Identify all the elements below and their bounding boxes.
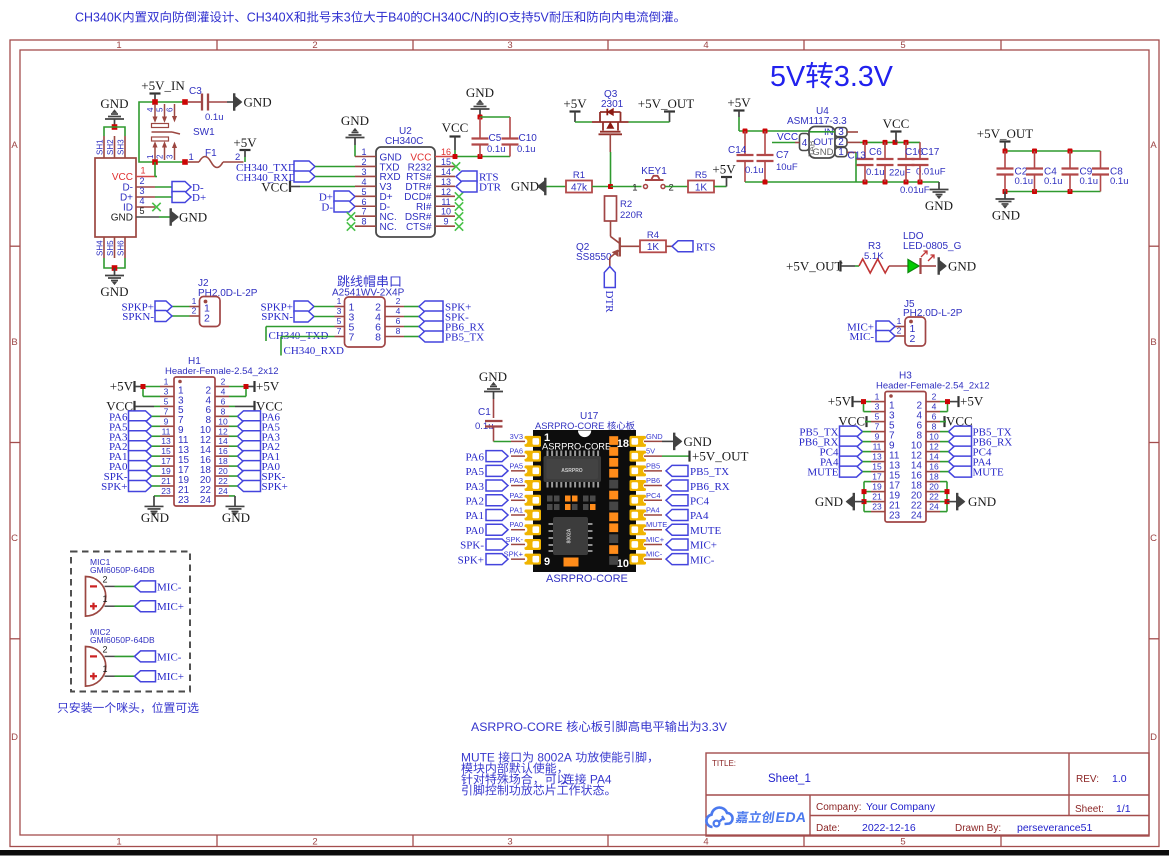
svg-text:MIC-: MIC- bbox=[157, 651, 182, 663]
svg-text:SPK-: SPK- bbox=[460, 540, 484, 552]
svg-text:DTR: DTR bbox=[479, 182, 502, 194]
svg-text:GND: GND bbox=[479, 369, 507, 384]
svg-text:PC4: PC4 bbox=[646, 491, 661, 500]
H3 pin 24 bbox=[911, 502, 940, 522]
svg-text:MUTE: MUTE bbox=[973, 467, 1004, 479]
svg-text:15: 15 bbox=[161, 446, 171, 456]
svg-text:C3: C3 bbox=[189, 86, 202, 97]
H1 pin 18 bbox=[200, 456, 229, 476]
capacitor C2 0.1u bbox=[997, 151, 1034, 192]
H3 pin 12 bbox=[911, 442, 940, 462]
module U17 passives graphic bbox=[547, 496, 596, 511]
net flag PB5_TX bbox=[666, 465, 729, 478]
junction bbox=[918, 180, 923, 185]
svg-text:10uF: 10uF bbox=[776, 162, 798, 173]
net flag MUTE bbox=[666, 524, 721, 537]
net flag PC4 left bbox=[820, 446, 871, 459]
svg-text:1: 1 bbox=[897, 316, 902, 326]
svg-text:3V3: 3V3 bbox=[510, 432, 523, 441]
wire bbox=[155, 186, 172, 188]
wire bbox=[855, 265, 859, 267]
wire bbox=[115, 655, 135, 657]
U4 pin1 GND stub and wire bbox=[745, 152, 856, 182]
svg-text:13: 13 bbox=[161, 436, 171, 446]
svg-text:2: 2 bbox=[910, 333, 916, 345]
net flag PB6_RX bbox=[666, 480, 730, 493]
wire bbox=[889, 265, 908, 267]
microphone MIC2 GMI6050P-64DB bbox=[86, 627, 156, 686]
H3 pin 2 bbox=[916, 392, 940, 412]
wire bbox=[864, 482, 871, 512]
svg-text:PC4: PC4 bbox=[690, 495, 709, 507]
H3 pin 11 bbox=[871, 442, 900, 462]
resistor R1 47k bbox=[566, 170, 592, 193]
junction bbox=[112, 124, 118, 130]
svg-text:+5V: +5V bbox=[828, 394, 852, 409]
bottom black bar bbox=[0, 850, 1169, 856]
capacitor C14 0.1u bbox=[728, 131, 764, 182]
net flag PB6_RX right bbox=[940, 436, 1012, 449]
note MUTE description bbox=[461, 751, 651, 796]
svg-text:5: 5 bbox=[337, 316, 342, 326]
svg-text:PB5_TX: PB5_TX bbox=[690, 466, 729, 478]
svg-text:1K: 1K bbox=[695, 182, 708, 193]
H1 pin 4 bbox=[205, 386, 229, 406]
svg-text:12: 12 bbox=[441, 187, 451, 197]
connector USB1 shield pins SH4-SH6 bbox=[96, 237, 126, 258]
H1 pin 16 bbox=[200, 446, 229, 466]
power flag +5V_OUT at U17 5V pin bbox=[662, 449, 748, 464]
ground GND below H1 pin24 bbox=[222, 499, 250, 525]
svg-text:1: 1 bbox=[116, 40, 121, 51]
ground GND below H1 pin23 bbox=[141, 499, 169, 525]
junction bbox=[945, 489, 950, 494]
ground GND bbox=[100, 268, 128, 299]
svg-text:10: 10 bbox=[218, 416, 228, 426]
wire bbox=[229, 387, 246, 397]
net flag D- bbox=[172, 182, 204, 195]
svg-text:CH340C/N: CH340C/N bbox=[423, 11, 483, 25]
svg-text:6: 6 bbox=[396, 316, 401, 326]
svg-text:R2: R2 bbox=[620, 199, 632, 210]
net flag PB5_TX bbox=[419, 331, 484, 344]
resistor R5 1K bbox=[688, 170, 714, 193]
svg-text:IO: IO bbox=[496, 11, 509, 25]
junction bbox=[152, 159, 158, 165]
net flag MIC- bbox=[850, 331, 895, 344]
svg-text:2: 2 bbox=[396, 296, 401, 306]
svg-text:15: 15 bbox=[441, 157, 451, 167]
net flag SPKN- bbox=[261, 311, 314, 323]
svg-text:以: 以 bbox=[557, 773, 569, 787]
svg-text:4: 4 bbox=[703, 837, 708, 848]
svg-text:9: 9 bbox=[164, 416, 169, 426]
svg-text:C10: C10 bbox=[519, 133, 538, 144]
ground GND flag bbox=[938, 257, 977, 275]
svg-text:PA3: PA3 bbox=[465, 481, 484, 493]
wire bbox=[315, 176, 355, 178]
svg-text:13: 13 bbox=[872, 452, 882, 462]
svg-text:17: 17 bbox=[872, 472, 882, 482]
net flag MUTE right bbox=[940, 466, 1004, 479]
net flag D- to U2 pin6 bbox=[321, 201, 355, 214]
svg-text:7: 7 bbox=[164, 406, 169, 416]
capacitor C1 0.1u bbox=[475, 399, 503, 442]
svg-text:Company:: Company: bbox=[816, 802, 862, 813]
svg-text:1: 1 bbox=[192, 296, 197, 306]
U17 left pin PA1 bbox=[509, 506, 525, 516]
ground GND flag bbox=[170, 208, 208, 226]
svg-text:5V: 5V bbox=[646, 447, 655, 456]
svg-text:SS8550: SS8550 bbox=[576, 252, 612, 263]
junction bbox=[152, 99, 158, 105]
svg-text:SPKN-: SPKN- bbox=[261, 311, 293, 323]
svg-text:VCC: VCC bbox=[442, 120, 469, 135]
wire bbox=[404, 306, 419, 308]
net flag DTR vertical bbox=[603, 267, 616, 314]
svg-text:10: 10 bbox=[617, 558, 629, 570]
svg-text:24: 24 bbox=[218, 486, 228, 496]
svg-text:MIC-: MIC- bbox=[850, 331, 875, 343]
JP pin 2 bbox=[375, 296, 404, 314]
svg-text:0.1u: 0.1u bbox=[1015, 176, 1034, 187]
svg-text:C: C bbox=[11, 533, 18, 544]
svg-text:SH3: SH3 bbox=[117, 139, 126, 155]
svg-text:C14: C14 bbox=[728, 145, 747, 156]
svg-text:5V: 5V bbox=[534, 11, 550, 25]
svg-text:DTR: DTR bbox=[603, 291, 615, 314]
svg-text:Drawn By:: Drawn By: bbox=[955, 823, 1001, 834]
svg-text:3: 3 bbox=[164, 386, 169, 396]
svg-text:7: 7 bbox=[875, 422, 880, 432]
ground GND above U2 pin1 bbox=[341, 113, 369, 145]
U2 pin 11 RI# bbox=[416, 197, 455, 213]
svg-text:2: 2 bbox=[156, 154, 165, 159]
wire bbox=[143, 387, 160, 397]
svg-text:10: 10 bbox=[929, 432, 939, 442]
net flag MIC- bbox=[135, 581, 182, 594]
power flag +5V right bbox=[948, 394, 984, 409]
svg-text:C6: C6 bbox=[869, 147, 882, 158]
H1 pin 24 bbox=[200, 486, 229, 506]
net flag PB6_RX left bbox=[799, 436, 871, 449]
svg-text:3: 3 bbox=[337, 306, 342, 316]
U17 right pin MIC- bbox=[644, 550, 663, 560]
U2 pin 1 GND bbox=[355, 147, 402, 163]
svg-text:VCC: VCC bbox=[261, 180, 288, 195]
svg-text:REV:: REV: bbox=[1076, 774, 1099, 785]
U4 pin3 IN stub bbox=[847, 131, 858, 133]
power flag VCC left bbox=[106, 398, 160, 413]
net flag PA4 right bbox=[940, 456, 992, 469]
connector USB1 shield pins SH1-SH3 bbox=[96, 136, 126, 158]
U17 right pin MIC+ bbox=[644, 535, 665, 545]
wire bbox=[404, 326, 419, 328]
net flag PA1 right bbox=[229, 451, 280, 464]
svg-text:+5V_OUT: +5V_OUT bbox=[692, 449, 748, 464]
svg-text:+5V_OUT: +5V_OUT bbox=[638, 96, 694, 111]
U2 pin 10 DSR# bbox=[405, 207, 455, 223]
wire bbox=[610, 152, 612, 187]
svg-text:PA2: PA2 bbox=[509, 491, 523, 500]
svg-text:47k: 47k bbox=[571, 182, 588, 193]
svg-text:PA1: PA1 bbox=[509, 506, 523, 515]
wire SW1 loop bbox=[139, 102, 185, 162]
svg-text:MIC-: MIC- bbox=[646, 550, 663, 559]
svg-text:CH340K: CH340K bbox=[75, 11, 123, 25]
svg-text:23: 23 bbox=[161, 486, 171, 496]
junction bbox=[862, 489, 867, 494]
svg-text:5: 5 bbox=[156, 107, 165, 112]
svg-text:PB5_TX: PB5_TX bbox=[445, 332, 484, 344]
svg-text:MUTE: MUTE bbox=[461, 751, 498, 765]
H1 pin 15 bbox=[160, 446, 190, 466]
svg-text:2: 2 bbox=[140, 176, 145, 186]
net flag MUTE left bbox=[807, 466, 871, 479]
net flag PA6 bbox=[465, 451, 508, 464]
svg-text:2: 2 bbox=[897, 326, 902, 336]
resistor R2 220R bbox=[605, 196, 643, 236]
svg-text:22: 22 bbox=[218, 476, 228, 486]
junction bbox=[763, 129, 768, 134]
net flag PA6 right bbox=[229, 411, 281, 424]
no-connect X U2 pin8 bbox=[347, 222, 355, 230]
U17 left pin PA6 bbox=[509, 447, 525, 457]
no-connect X U2 pin11 bbox=[455, 202, 463, 210]
power flag VCC right bbox=[229, 398, 283, 413]
ground GND flag left of R1 bbox=[511, 178, 547, 196]
U17 left pin PA3 bbox=[509, 476, 525, 486]
net flag MIC+ bbox=[135, 601, 184, 614]
capacitor C3 bbox=[188, 86, 227, 123]
wire bbox=[404, 336, 419, 338]
svg-text:MIC+: MIC+ bbox=[690, 540, 717, 552]
pin 1 VCC bbox=[112, 166, 155, 184]
svg-text:R4: R4 bbox=[647, 230, 659, 241]
net flag MIC+ bbox=[847, 321, 895, 334]
U17 right pin GND bbox=[644, 432, 663, 442]
power flag +5V bbox=[727, 95, 751, 117]
net flag MIC- bbox=[666, 554, 715, 567]
svg-text:1: 1 bbox=[116, 837, 121, 848]
U17 left pin 3V3 bbox=[510, 432, 525, 442]
H3 pin 23 bbox=[871, 502, 901, 522]
svg-text:12: 12 bbox=[218, 426, 228, 436]
H3 pin 9 bbox=[871, 432, 895, 452]
svg-text:VCC: VCC bbox=[883, 116, 910, 131]
svg-text:+5V: +5V bbox=[960, 394, 984, 409]
H3 pin 10 bbox=[911, 432, 940, 452]
svg-text:SH1: SH1 bbox=[96, 139, 105, 155]
svg-text:PB5: PB5 bbox=[646, 461, 660, 470]
junction bbox=[743, 129, 748, 134]
svg-text:1: 1 bbox=[632, 183, 637, 194]
U2 pin 5 D+ bbox=[355, 187, 393, 203]
svg-text:PA0: PA0 bbox=[509, 520, 523, 529]
H1 pin 13 bbox=[160, 436, 190, 456]
H1 pin 20 bbox=[200, 466, 229, 486]
svg-text:9: 9 bbox=[875, 432, 880, 442]
svg-text:14: 14 bbox=[218, 436, 228, 446]
H1 pin 14 bbox=[200, 436, 229, 456]
svg-text:8: 8 bbox=[221, 406, 226, 416]
svg-text:VCC: VCC bbox=[777, 132, 798, 143]
junction bbox=[1003, 149, 1008, 154]
wire bbox=[864, 402, 872, 412]
junction bbox=[904, 140, 909, 145]
svg-text:1: 1 bbox=[361, 147, 366, 157]
wire VCC pin1 to SW1 bbox=[155, 176, 157, 178]
pin 5 GND bbox=[111, 206, 159, 224]
wire bbox=[666, 245, 672, 247]
junction bbox=[182, 99, 188, 105]
MIC1 pin 2 bbox=[102, 574, 114, 586]
wire bbox=[575, 121, 592, 123]
svg-text:1: 1 bbox=[102, 594, 107, 604]
svg-text:PA5: PA5 bbox=[509, 461, 523, 470]
power flag +5V bbox=[233, 135, 257, 162]
junction bbox=[478, 115, 483, 120]
U17 right pin MUTE bbox=[644, 520, 667, 530]
svg-text:21: 21 bbox=[872, 492, 882, 502]
resistor R3 5.1K zigzag bbox=[859, 241, 889, 273]
net flag PA3 right bbox=[229, 431, 281, 444]
wire bbox=[547, 186, 567, 188]
svg-text:PA2: PA2 bbox=[465, 495, 484, 507]
junction bbox=[863, 140, 868, 145]
svg-text:8: 8 bbox=[396, 326, 401, 336]
pin 3 D+ bbox=[120, 186, 155, 204]
svg-text:15: 15 bbox=[872, 462, 882, 472]
wire bbox=[940, 482, 947, 512]
U4 pin2 OUT stub bbox=[847, 141, 860, 143]
capacitor C9 0.1u bbox=[1062, 151, 1099, 192]
svg-text:24: 24 bbox=[929, 502, 939, 512]
net flag PB5_TX left bbox=[799, 426, 871, 439]
svg-text:+5V_IN: +5V_IN bbox=[141, 78, 185, 93]
svg-text:20: 20 bbox=[218, 466, 228, 476]
pin 2 D- bbox=[122, 176, 155, 194]
svg-text:1: 1 bbox=[141, 166, 146, 176]
ground GND above C1 bbox=[479, 369, 507, 399]
svg-text:SPK+: SPK+ bbox=[262, 481, 288, 493]
svg-text:ASM1117-3.3: ASM1117-3.3 bbox=[787, 116, 847, 127]
svg-text:Header-Female-2.54_2x12: Header-Female-2.54_2x12 bbox=[165, 366, 279, 377]
svg-text:R5: R5 bbox=[695, 170, 707, 181]
junction bbox=[141, 384, 146, 389]
capacitor C13 0.1u bbox=[848, 142, 885, 182]
module U17 8002A chip graphic bbox=[549, 517, 593, 555]
svg-text:4: 4 bbox=[140, 196, 145, 206]
svg-text:5: 5 bbox=[900, 40, 905, 51]
svg-text:C5: C5 bbox=[489, 133, 502, 144]
svg-text:18: 18 bbox=[218, 456, 228, 466]
capacitor C16 0.01uF bbox=[898, 142, 946, 182]
svg-text:0.1u: 0.1u bbox=[1110, 176, 1129, 187]
svg-text:Sheet_1: Sheet_1 bbox=[768, 773, 811, 785]
wire bbox=[665, 186, 688, 188]
svg-text:2: 2 bbox=[102, 574, 107, 584]
svg-text:B: B bbox=[1150, 337, 1156, 348]
net flag PA0 right bbox=[229, 461, 281, 474]
H3 pin 5 bbox=[871, 412, 895, 432]
H1 pin 23 bbox=[160, 486, 190, 506]
svg-text:8: 8 bbox=[375, 332, 381, 344]
U2 pin 8 NC. bbox=[355, 217, 397, 233]
wire bbox=[315, 166, 355, 168]
wire bbox=[104, 127, 125, 136]
svg-text:RTS: RTS bbox=[696, 241, 716, 253]
net flag PA2 left bbox=[109, 441, 160, 454]
svg-text:23: 23 bbox=[178, 495, 190, 506]
wire bbox=[480, 116, 510, 118]
junction bbox=[893, 140, 898, 145]
svg-text:9: 9 bbox=[443, 217, 448, 227]
net label VCC wire to U4 pin4 bbox=[772, 132, 800, 143]
svg-text:1: 1 bbox=[164, 377, 169, 387]
H1 pin 9 bbox=[160, 416, 184, 436]
junction bbox=[112, 265, 118, 271]
ground GND flag left bbox=[815, 493, 864, 511]
power flag +5V_OUT bbox=[977, 126, 1033, 151]
no-connect X U2 pin7 bbox=[347, 212, 355, 220]
net flag PC4 bbox=[666, 495, 709, 508]
svg-text:5: 5 bbox=[361, 187, 366, 197]
H3 pin 13 bbox=[871, 452, 901, 472]
net flag SPK+ right bbox=[229, 481, 288, 494]
no-connect X U2 pin10 bbox=[455, 212, 463, 220]
module U17 right pads bbox=[630, 436, 649, 565]
net flag PA5 right bbox=[229, 421, 281, 434]
svg-text:4: 4 bbox=[146, 107, 155, 112]
svg-text:GND: GND bbox=[179, 210, 207, 225]
svg-text:5: 5 bbox=[900, 837, 905, 848]
connector J2 PH2.0D-L-2P bbox=[190, 278, 258, 327]
svg-text:220R: 220R bbox=[620, 210, 643, 221]
module U17 left pads bbox=[522, 436, 541, 565]
svg-text:22uF: 22uF bbox=[889, 168, 911, 179]
U2 pin 15 R232 bbox=[408, 157, 455, 173]
net flag SPKP+ bbox=[260, 301, 314, 314]
svg-text:GND: GND bbox=[646, 432, 663, 441]
JP pin 5 bbox=[335, 316, 355, 334]
svg-text:GND: GND bbox=[111, 213, 133, 224]
net flag SPK+ bbox=[458, 554, 508, 567]
power flag +5V_IN bbox=[141, 78, 185, 102]
power flag +5V_OUT bbox=[638, 96, 694, 122]
svg-text:5: 5 bbox=[875, 412, 880, 422]
power flag VCC to U2 pin4 bbox=[261, 180, 300, 195]
svg-text:GND: GND bbox=[925, 198, 953, 213]
svg-text:Header-Female-2.54_2x12: Header-Female-2.54_2x12 bbox=[876, 381, 990, 392]
net flag SPKP+ bbox=[121, 301, 172, 314]
svg-text:TITLE:: TITLE: bbox=[712, 759, 736, 768]
svg-text:1: 1 bbox=[102, 664, 107, 674]
svg-text:2: 2 bbox=[312, 837, 317, 848]
H3 pin 14 bbox=[911, 452, 940, 472]
H3 pin 7 bbox=[871, 422, 895, 442]
svg-text:MIC+: MIC+ bbox=[157, 601, 184, 613]
capacitor C6 22uF bbox=[869, 142, 911, 182]
svg-text:4: 4 bbox=[361, 177, 366, 187]
fuse F1 bbox=[188, 148, 244, 168]
junction bbox=[861, 399, 866, 404]
svg-text:PA3: PA3 bbox=[509, 476, 523, 485]
svg-text:Sheet:: Sheet: bbox=[1075, 804, 1104, 815]
svg-text:18: 18 bbox=[617, 438, 629, 450]
svg-text:SPK-: SPK- bbox=[505, 535, 523, 544]
no-connect X U2 pin9 bbox=[455, 222, 463, 230]
